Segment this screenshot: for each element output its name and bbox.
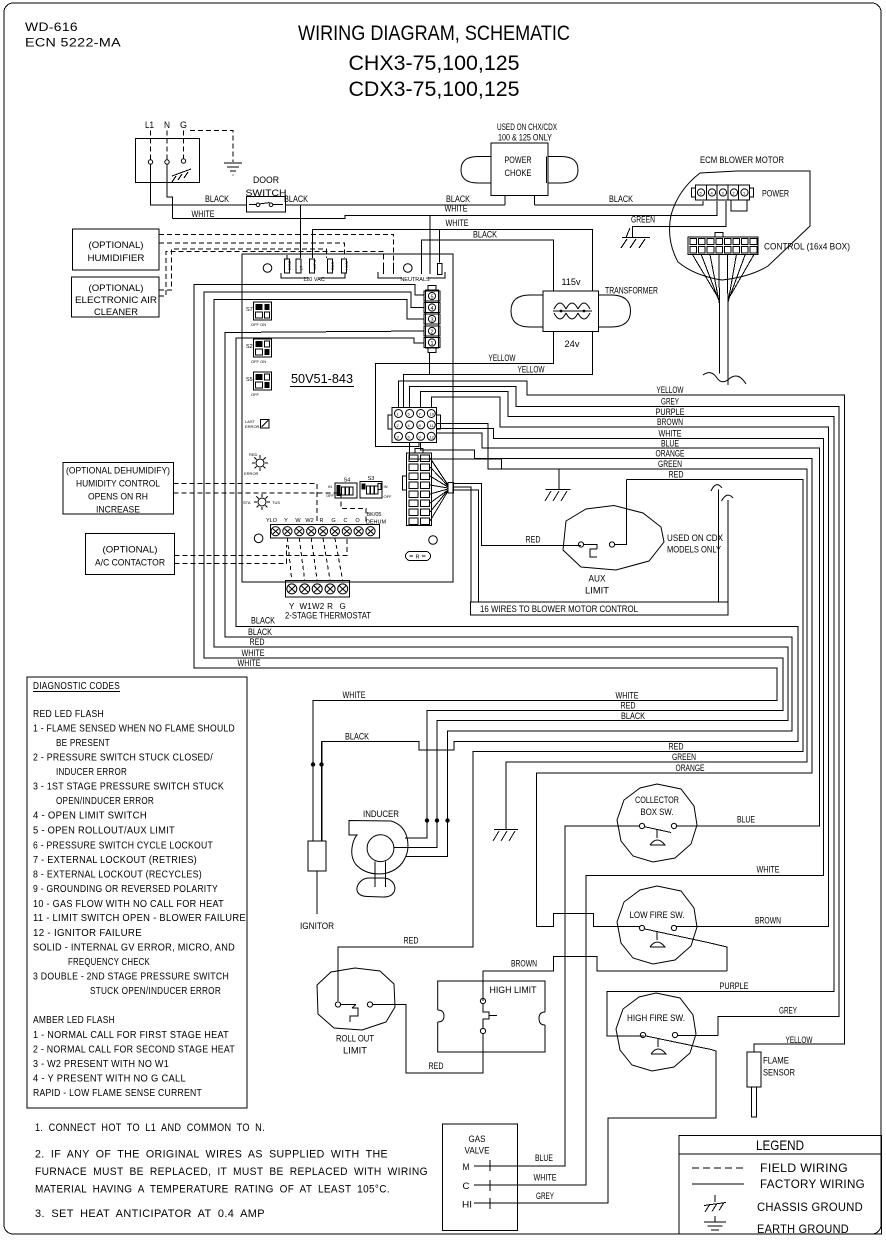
svg-text:GREEN: GREEN <box>631 215 655 226</box>
dehumidify dashed wire 2 <box>174 493 367 524</box>
svg-text:POWER: POWER <box>762 189 789 200</box>
svg-text:GREY: GREY <box>779 1006 797 1017</box>
svg-text:S3: S3 <box>368 476 375 482</box>
N terminal <box>165 160 169 164</box>
ECM cable fan <box>692 255 754 306</box>
svg-text:C: C <box>463 1181 470 1192</box>
roll out limit outline <box>317 968 395 1030</box>
ECM control connector <box>688 233 758 255</box>
svg-text:BLACK: BLACK <box>621 711 646 722</box>
12-pin connector <box>388 408 441 443</box>
svg-text:(OPTIONAL): (OPTIONAL) <box>89 283 144 294</box>
legend chassis ground symbol <box>704 1195 726 1212</box>
grey bus wire <box>410 387 839 1036</box>
svg-text:11 - LIMIT SWITCH OPEN - BLOWE: 11 - LIMIT SWITCH OPEN - BLOWER FAILURE <box>33 913 246 924</box>
svg-text:RED: RED <box>404 936 419 947</box>
svg-text:YELLOW: YELLOW <box>489 353 516 364</box>
svg-text:GREY: GREY <box>536 1191 554 1202</box>
svg-text:IN: IN <box>384 484 388 489</box>
120 VAC bracket <box>281 273 345 278</box>
LAST ERROR indicator <box>245 419 269 429</box>
black wire choke to ECM <box>535 201 703 205</box>
white branch to rect neutral <box>439 230 441 263</box>
white wire W terminal to transformer <box>312 230 592 291</box>
svg-text:1 - NORMAL CALL FOR FIRST STAG: 1 - NORMAL CALL FOR FIRST STAGE HEAT <box>33 1030 229 1041</box>
svg-text:BLUE: BLUE <box>535 1153 553 1164</box>
svg-text:GAS: GAS <box>469 1134 486 1145</box>
optional dehumidify box <box>63 462 174 514</box>
dashed run G to earth ground <box>190 131 233 163</box>
svg-text:W2: W2 <box>305 518 313 524</box>
16-pin connector <box>403 449 432 526</box>
16 wires to blower motor control box <box>471 602 728 615</box>
green feeder 2 <box>410 442 502 469</box>
svg-text:BOX SW.: BOX SW. <box>641 807 674 818</box>
chassis ground on green bus <box>545 469 571 501</box>
svg-text:3 - W2 PRESENT WITH NO W1: 3 - W2 PRESENT WITH NO W1 <box>33 1059 169 1070</box>
optional electronic air cleaner box <box>72 277 160 317</box>
humidifier dashed wire to neutrals <box>159 234 394 262</box>
svg-text:ORANGE: ORANGE <box>676 763 705 774</box>
svg-text:1: 1 <box>743 191 746 196</box>
svg-text:115v: 115v <box>562 277 581 288</box>
svg-text:M: M <box>463 1162 470 1173</box>
N lead dashed <box>166 131 168 160</box>
board exit wire red <box>214 300 788 848</box>
transformer right lobe <box>598 295 630 327</box>
svg-text:L1: L1 <box>145 120 154 131</box>
svg-text:5: 5 <box>430 295 433 301</box>
svg-text:RED: RED <box>669 742 684 753</box>
svg-text:6 - PRESSURE SWITCH CYCLE LOCK: 6 - PRESSURE SWITCH CYCLE LOCKOUT <box>33 841 213 852</box>
cable break squiggle <box>703 373 746 384</box>
svg-text:RED: RED <box>429 1061 444 1072</box>
lower strip labels <box>289 602 346 611</box>
yellow bus wire <box>399 381 845 1052</box>
svg-text:BLACK: BLACK <box>345 732 370 743</box>
svg-text:W: W <box>295 518 301 524</box>
svg-text:USED ON CHX/CDX: USED ON CHX/CDX <box>497 122 557 133</box>
svg-text:G: G <box>180 120 187 131</box>
control board outline <box>242 254 453 582</box>
svg-text:OPEN/INDUCER ERROR: OPEN/INDUCER ERROR <box>56 796 154 807</box>
svg-text:BLUE: BLUE <box>737 815 755 826</box>
svg-text:1: 1 <box>430 341 433 347</box>
green bus wire <box>437 423 808 829</box>
svg-text:C: C <box>344 518 348 524</box>
thermostat dashed wires <box>287 538 342 581</box>
svg-text:ROLL OUT: ROLL OUT <box>336 1034 374 1045</box>
svg-text:NEUTRALS: NEUTRALS <box>400 277 430 283</box>
board exit wire black2 <box>225 332 792 856</box>
optional humidifier box <box>72 229 159 270</box>
svg-text:S5: S5 <box>246 377 253 383</box>
board internal wires to 5-pin <box>242 285 424 343</box>
svg-text:RED: RED <box>250 637 265 648</box>
16-pin fan whiskers <box>430 458 454 521</box>
svg-text:5 - OPEN ROLLOUT/AUX LIMIT: 5 - OPEN ROLLOUT/AUX LIMIT <box>33 826 175 837</box>
svg-text:24v: 24v <box>565 339 580 350</box>
svg-text:3: 3 <box>722 191 725 196</box>
svg-text:100 & 125 ONLY: 100 & 125 ONLY <box>498 133 553 144</box>
svg-text:N: N <box>164 120 170 131</box>
transformer center <box>543 291 599 331</box>
svg-text:YELLOW: YELLOW <box>786 1035 813 1046</box>
svg-text:WHITE: WHITE <box>343 690 366 701</box>
svg-text:IN: IN <box>328 484 332 489</box>
svg-text:HUM: HUM <box>344 261 349 270</box>
brown bus wire <box>431 397 828 927</box>
svg-text:OFF: OFF <box>384 494 393 499</box>
svg-text:(OPTIONAL): (OPTIONAL) <box>89 240 144 251</box>
svg-text:WD-616: WD-616 <box>25 20 78 34</box>
svg-text:3 DOUBLE - 2ND STAGE PRESSURE: 3 DOUBLE - 2ND STAGE PRESSURE SWITCH <box>33 972 229 983</box>
svg-text:3: 3 <box>430 318 433 324</box>
svg-text:ELECTRONIC AIR: ELECTRONIC AIR <box>75 295 157 306</box>
svg-text:5: 5 <box>408 412 411 417</box>
svg-text:3. SET HEAT ANTICIPATOR AT 0.: 3. SET HEAT ANTICIPATOR AT 0.4 AMP <box>35 1208 265 1220</box>
svg-text:1 - FLAME SENSED WHEN NO FLAME: 1 - FLAME SENSED WHEN NO FLAME SHOULD <box>33 724 235 735</box>
svg-text:OFF: OFF <box>326 493 335 498</box>
svg-text:4 - OPEN LIMIT SWITCH: 4 - OPEN LIMIT SWITCH <box>33 811 147 822</box>
svg-text:FLAME: FLAME <box>763 1056 789 1067</box>
collector left wire <box>496 826 639 1166</box>
lower thermostat strip <box>285 581 349 598</box>
svg-text:LOW FIRE SW.: LOW FIRE SW. <box>630 910 685 921</box>
black wire neutral to transformer <box>422 240 554 290</box>
purple bus wire <box>421 392 835 1036</box>
low fire blade wire down <box>708 943 727 972</box>
blue bus wire <box>437 433 820 826</box>
svg-text:CHASSIS GROUND: CHASSIS GROUND <box>757 1200 863 1214</box>
ignitor wire 2 <box>321 742 323 842</box>
collector contacts <box>639 823 644 828</box>
svg-text:16 WIRES TO BLOWER MOTOR CONTR: 16 WIRES TO BLOWER MOTOR CONTROL <box>480 604 638 615</box>
svg-text:S4: S4 <box>344 478 351 484</box>
thermostat terminal strip <box>271 524 380 538</box>
choke lead left <box>504 196 506 206</box>
high fire contacts <box>640 1032 645 1037</box>
roll out right wire <box>373 1005 483 1074</box>
svg-text:RED: RED <box>526 535 541 546</box>
dip switch S2 <box>246 339 272 364</box>
16 wires feeder A <box>454 487 472 602</box>
svg-text:RED: RED <box>621 701 636 712</box>
legend box <box>679 1136 882 1235</box>
svg-text:FACTORY WIRING: FACTORY WIRING <box>760 1177 865 1191</box>
svg-text:A/C CONTACTOR: A/C CONTACTOR <box>95 558 165 569</box>
svg-text:INDUCER: INDUCER <box>363 809 399 820</box>
yellow wire transformer left <box>375 331 553 446</box>
board exit wire white1 <box>204 292 783 838</box>
svg-text:CDX3-75,100,125: CDX3-75,100,125 <box>349 78 520 101</box>
flame sensor rod <box>752 1087 757 1117</box>
board mounting hole bottom right <box>429 536 438 545</box>
svg-text:RED: RED <box>249 452 258 457</box>
svg-text:HUMIDITY CONTROL: HUMIDITY CONTROL <box>76 479 160 490</box>
R component <box>406 552 431 561</box>
svg-text:YELLOW: YELLOW <box>518 364 545 375</box>
junction dots ignitor <box>311 762 315 766</box>
16 wires feeder B <box>454 490 479 602</box>
svg-text:LEGEND: LEGEND <box>756 1137 804 1153</box>
svg-text:O: O <box>355 518 360 524</box>
thermostat terminal labels <box>266 512 387 526</box>
ignitor body <box>308 841 326 914</box>
white wire N to ECM power <box>172 201 717 219</box>
svg-text:STA: STA <box>243 500 251 505</box>
green wire ground to ECM <box>632 201 726 238</box>
svg-text:1. CONNECT HOT TO L1 AND COMMO: 1. CONNECT HOT TO L1 AND COMMON TO N. <box>35 1122 265 1134</box>
wire L1 to door switch <box>151 164 247 205</box>
dip switch S7 <box>246 302 272 327</box>
board exit wire black1 <box>236 338 798 841</box>
svg-text:11: 11 <box>430 423 435 428</box>
svg-text:OFF: OFF <box>251 392 260 397</box>
NEUTRALS bracket <box>378 272 445 278</box>
svg-text:AMBER LED FLASH: AMBER LED FLASH <box>33 1015 115 1026</box>
power choke body <box>491 143 548 196</box>
NEUTRALS pins <box>384 263 443 275</box>
svg-text:BLACK: BLACK <box>609 194 634 205</box>
dip switch S4 <box>326 478 357 499</box>
svg-text:6: 6 <box>408 435 411 440</box>
white branch to neutral <box>429 215 431 262</box>
120 VAC spade terminals <box>285 255 347 273</box>
svg-text:8 - EXTERNAL LOCKOUT (RECYCLES: 8 - EXTERNAL LOCKOUT (RECYCLES) <box>33 870 202 881</box>
svg-text:TRANSFORMER: TRANSFORMER <box>605 286 658 297</box>
svg-text:12 - IGNITOR FAILURE: 12 - IGNITOR FAILURE <box>33 928 142 939</box>
earth ground <box>224 163 242 175</box>
grey wire high fire blade to gas valve <box>496 1050 716 1204</box>
svg-text:OPENS ON RH: OPENS ON RH <box>88 492 148 503</box>
board mounting hole bottom left <box>254 534 263 543</box>
svg-text:MODELS ONLY: MODELS ONLY <box>667 545 722 556</box>
svg-text:BLACK: BLACK <box>473 230 498 241</box>
svg-text:SWITCH: SWITCH <box>246 188 287 199</box>
inducer body <box>349 821 408 898</box>
svg-text:CHX3-75,100,125: CHX3-75,100,125 <box>349 52 520 75</box>
aux limit contacts <box>578 542 583 547</box>
svg-text:TUS: TUS <box>272 500 280 505</box>
svg-text:PURPLE: PURPLE <box>720 981 749 992</box>
svg-text:4: 4 <box>711 191 714 196</box>
svg-text:1: 1 <box>397 412 400 417</box>
brown wire low fire to high limit <box>483 957 727 1002</box>
dip switch S3 <box>360 476 392 499</box>
dip switch S5 <box>246 372 272 397</box>
AC contactor dashed wire to Y <box>174 545 286 564</box>
svg-text:G: G <box>331 518 335 524</box>
svg-text:120 VAC: 120 VAC <box>303 277 325 283</box>
high limit contacts <box>480 998 485 1003</box>
board mounting hole top left <box>263 264 272 273</box>
legend field wiring sample <box>692 1167 744 1169</box>
svg-text:R: R <box>320 518 324 524</box>
high fire right wire to grey <box>678 1035 718 1037</box>
svg-text:S7: S7 <box>246 307 253 313</box>
svg-text:3 - 1ST STAGE PRESSURE SWITCH: 3 - 1ST STAGE PRESSURE SWITCH STUCK <box>33 782 224 793</box>
svg-text:ECN 5222-MA: ECN 5222-MA <box>25 36 121 50</box>
svg-text:YELLOW: YELLOW <box>657 385 684 396</box>
svg-text:2-STAGE THERMOSTAT: 2-STAGE THERMOSTAT <box>285 611 371 622</box>
board mounting hole top right <box>404 264 413 273</box>
svg-text:50V51-843: 50V51-843 <box>291 371 353 386</box>
svg-text:7: 7 <box>419 412 422 417</box>
terminal screws row1 <box>271 527 375 536</box>
svg-text:RED: RED <box>669 470 684 481</box>
svg-text:HIGH FIRE SW.: HIGH FIRE SW. <box>627 1013 685 1024</box>
svg-text:BLACK: BLACK <box>205 194 230 205</box>
high fire switch outline <box>616 993 696 1071</box>
svg-text:S2: S2 <box>246 344 253 350</box>
svg-text:FREQUENCY CHECK: FREQUENCY CHECK <box>68 957 150 968</box>
board exit wire white2 <box>194 285 777 841</box>
svg-text:EARTH GROUND: EARTH GROUND <box>757 1222 849 1236</box>
lower strip screws <box>287 584 348 594</box>
svg-text:4: 4 <box>430 306 433 312</box>
door switch contacts <box>249 203 283 207</box>
yellow wire transformer right <box>403 331 592 407</box>
svg-text:OFF ON: OFF ON <box>251 359 266 364</box>
svg-text:5: 5 <box>700 191 703 196</box>
diagnostic codes box <box>27 677 247 1108</box>
power choke right lobe <box>548 157 578 184</box>
ECM motor outline <box>670 171 810 280</box>
aux limit right wire <box>615 480 627 545</box>
LED red error <box>244 452 268 476</box>
svg-text:Y: Y <box>284 518 288 524</box>
L1 terminal <box>148 160 152 164</box>
svg-text:BROWN: BROWN <box>511 959 537 970</box>
5-pin connector on board <box>424 286 440 353</box>
svg-text:VALVE: VALVE <box>465 1146 490 1157</box>
high limit box <box>438 981 545 1052</box>
svg-text:CONTROL (16x4 BOX): CONTROL (16x4 BOX) <box>764 242 850 253</box>
ECM power connector <box>692 185 754 211</box>
flame sensor body <box>747 1052 761 1087</box>
aux limit outline <box>563 506 664 571</box>
svg-text:7 - EXTERNAL LOCKOUT (RETRIES): 7 - EXTERNAL LOCKOUT (RETRIES) <box>33 855 197 866</box>
ECM cable <box>719 300 721 374</box>
svg-text:OFF ON: OFF ON <box>251 322 266 327</box>
svg-text:FIELD WIRING: FIELD WIRING <box>760 1161 848 1175</box>
door switch box <box>247 197 286 213</box>
chassis ground in power box <box>172 169 191 182</box>
svg-text:(OPTIONAL DEHUMIDIFY): (OPTIONAL DEHUMIDIFY) <box>66 466 170 477</box>
svg-text:DIAGNOSTIC CODES: DIAGNOSTIC CODES <box>33 681 120 692</box>
svg-text:WHITE: WHITE <box>446 218 469 229</box>
svg-text:CLEANER: CLEANER <box>94 307 138 318</box>
svg-text:LIMIT: LIMIT <box>343 1046 367 1057</box>
collector box switch outline <box>617 784 697 862</box>
legend factory wiring sample <box>692 1183 744 1185</box>
svg-text:MATERIAL HAVING A TEMPERATURE: MATERIAL HAVING A TEMPERATURE RATING OF … <box>35 1184 390 1196</box>
optional AC contactor box <box>86 534 175 575</box>
svg-text:USED ON CDX: USED ON CDX <box>667 533 724 544</box>
svg-text:RAPID - LOW FLAME SENSE CURREN: RAPID - LOW FLAME SENSE CURRENT <box>33 1088 202 1099</box>
EAC dashed wire to neutrals <box>159 252 384 297</box>
low fire contacts <box>639 925 644 930</box>
svg-text:DOOR: DOOR <box>253 175 279 186</box>
svg-text:2: 2 <box>397 423 400 428</box>
svg-text:BE PRESENT: BE PRESENT <box>56 738 110 749</box>
svg-text:BLACK: BLACK <box>284 194 309 205</box>
red bus wire <box>338 480 803 1002</box>
svg-text:10 - GAS FLOW WITH NO CALL FOR: 10 - GAS FLOW WITH NO CALL FOR HEAT <box>33 899 224 910</box>
svg-text:10: 10 <box>430 412 435 417</box>
svg-text:LT: LT <box>299 265 304 270</box>
svg-text:4 - Y PRESENT WITH NO G CALL: 4 - Y PRESENT WITH NO G CALL <box>33 1074 186 1085</box>
svg-text:2 - NORMAL CALL FOR SECOND STA: 2 - NORMAL CALL FOR SECOND STAGE HEAT <box>33 1045 235 1056</box>
svg-text:WHITE: WHITE <box>757 865 780 876</box>
svg-text:YLO: YLO <box>266 518 278 524</box>
svg-text:WHITE: WHITE <box>534 1173 557 1184</box>
svg-text:ERROR: ERROR <box>244 471 259 476</box>
svg-text:2: 2 <box>430 330 433 336</box>
svg-text:HI: HI <box>462 1200 472 1211</box>
svg-text:AUX: AUX <box>589 574 607 585</box>
power entry box <box>136 139 200 183</box>
dehumidify dashed wire 1 <box>174 483 318 524</box>
svg-text:EAC: EAC <box>330 262 335 270</box>
svg-text:4: 4 <box>408 423 411 428</box>
svg-text:INCREASE: INCREASE <box>96 505 140 516</box>
svg-text:GREEN: GREEN <box>672 752 696 763</box>
svg-text:DISC: DISC <box>287 260 292 270</box>
choke lead right <box>534 196 536 206</box>
humidifier dashed wire to HUM terminal <box>159 243 345 258</box>
svg-text:POWER: POWER <box>505 155 532 166</box>
LED status <box>243 494 280 510</box>
svg-text:COLLECTOR: COLLECTOR <box>635 795 679 806</box>
orange bus wire <box>421 442 812 926</box>
svg-text:STUCK OPEN/INDUCER ERROR: STUCK OPEN/INDUCER ERROR <box>90 986 221 997</box>
branch to LT terminal <box>300 205 302 258</box>
svg-text:9 - GROUNDING OR REVERSED POLA: 9 - GROUNDING OR REVERSED POLARITY <box>33 884 218 895</box>
G terminal <box>181 159 185 163</box>
chassis ground mid (green) <box>493 830 518 842</box>
gas valve box <box>443 1124 518 1231</box>
G lead dashed <box>183 131 185 159</box>
low fire switch outline <box>617 886 697 964</box>
svg-text:BROWN: BROWN <box>755 916 781 927</box>
svg-text:12: 12 <box>430 435 435 440</box>
svg-text:IGNITOR: IGNITOR <box>300 921 334 932</box>
power choke left lobe <box>461 157 491 184</box>
svg-text:2: 2 <box>733 191 736 196</box>
svg-text:HIGH LIMIT: HIGH LIMIT <box>490 985 537 996</box>
legend earth ground symbol <box>704 1216 726 1234</box>
svg-text:2 - PRESSURE SWITCH STUCK CLOS: 2 - PRESSURE SWITCH STUCK CLOSED/ <box>33 753 213 764</box>
svg-text:LIMIT: LIMIT <box>585 586 609 597</box>
black wire door switch to ECM power <box>286 204 506 206</box>
svg-text:BLACK: BLACK <box>251 616 276 627</box>
svg-text:SOLID - INTERNAL GV ERROR, MIC: SOLID - INTERNAL GV ERROR, MICRO, AND <box>33 943 235 954</box>
120 VAC terminal tiny labels <box>287 259 349 270</box>
svg-text:WIRING DIAGRAM, SCHEMATIC: WIRING DIAGRAM, SCHEMATIC <box>298 22 570 45</box>
svg-text:FURNACE MUST BE REPLACED, IT M: FURNACE MUST BE REPLACED, IT MUST BE REP… <box>35 1166 428 1178</box>
svg-text:ECM BLOWER MOTOR: ECM BLOWER MOTOR <box>700 155 784 166</box>
cable break curls <box>711 485 722 491</box>
svg-text:9: 9 <box>419 435 422 440</box>
svg-text:RED LED FLASH: RED LED FLASH <box>33 709 104 720</box>
chassis ground at ECM <box>621 228 650 248</box>
gas valve terminals <box>462 1160 496 1211</box>
L1 lead dashed <box>150 131 152 160</box>
red wire to aux from 16-pin <box>454 483 581 545</box>
white bus wire <box>437 428 824 1185</box>
